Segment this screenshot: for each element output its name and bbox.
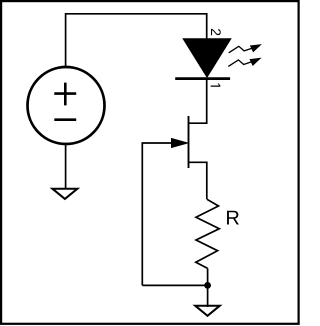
wire (source bottom to ground)	[65, 144, 67, 189]
wire (LED cathode to transistor drain)	[189, 79, 207, 123]
light emission arrow (bottom)	[228, 58, 260, 66]
voltage source	[28, 67, 105, 144]
resistor R	[196, 199, 220, 268]
label R	[227, 211, 239, 225]
wire (source top to LED anode)	[66, 14, 207, 67]
pin number 2	[211, 29, 221, 35]
transistor	[172, 116, 189, 168]
wire (gate)	[142, 143, 186, 285]
LED	[175, 39, 230, 79]
light emission arrow (top)	[229, 45, 261, 53]
junction node	[204, 282, 211, 289]
wire (resistor bottom to node)	[207, 268, 209, 285]
wire (bottom, gate to source node)	[142, 284, 207, 286]
ground (left)	[52, 189, 77, 199]
ground (right)	[195, 306, 220, 316]
wire (node to ground)	[207, 285, 209, 307]
wire (transistor source to resistor)	[189, 162, 207, 199]
pin number 1	[211, 83, 221, 86]
